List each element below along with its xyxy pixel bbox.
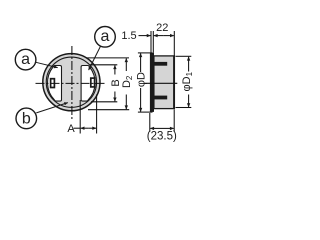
right terminal rect: [91, 78, 95, 87]
svg-text:D2: D2: [121, 75, 134, 88]
inner bar top: [154, 62, 167, 66]
inner bar bottom: [154, 96, 167, 100]
svg-text:b: b: [22, 110, 31, 127]
body right edge thick: [173, 56, 175, 109]
dim D2: [86, 57, 129, 59]
leader a top: [89, 46, 101, 70]
leader b: [36, 103, 68, 113]
outer circle (flange phiD): [43, 54, 100, 111]
left terminal rect: [51, 79, 55, 88]
body: [154, 56, 175, 109]
svg-text:a: a: [101, 28, 110, 45]
svg-text:φD1: φD1: [181, 71, 194, 91]
callout b: [16, 108, 37, 129]
svg-text:a: a: [21, 51, 30, 68]
left kidney slot: [48, 66, 62, 102]
callout a (left): [15, 49, 36, 70]
flange (black): [150, 53, 154, 112]
dim A: [79, 100, 81, 134]
dim B: [90, 64, 117, 66]
callout a (top): [95, 27, 116, 48]
horizontal centerline: [36, 82, 107, 84]
centerline: [145, 82, 178, 84]
svg-text:B: B: [110, 79, 122, 86]
leader a left: [36, 62, 58, 67]
dim phiD: [138, 52, 153, 54]
svg-text:(23.5): (23.5): [147, 131, 177, 143]
inner circle (body phiD2): [46, 57, 96, 107]
svg-text:22: 22: [156, 22, 168, 34]
svg-text:1.5: 1.5: [121, 30, 136, 42]
vertical centerline: [71, 46, 73, 121]
dim phiD1: [176, 55, 192, 57]
svg-text:φD: φD: [136, 72, 148, 87]
svg-text:A: A: [67, 123, 75, 135]
right kidney slot: [81, 66, 95, 102]
dim 23.5: [149, 113, 151, 132]
